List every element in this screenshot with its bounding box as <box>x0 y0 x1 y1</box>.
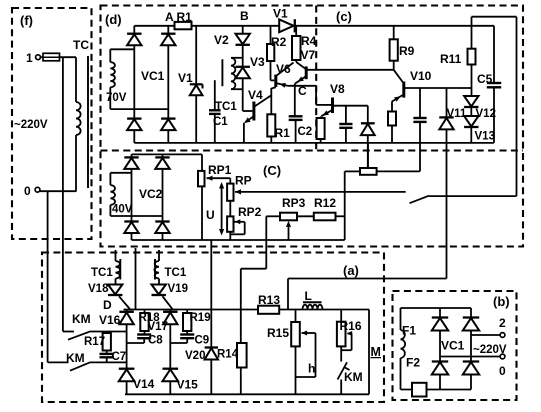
svg-text:R13: R13 <box>258 293 280 307</box>
svg-text:h: h <box>308 362 315 376</box>
svg-text:0: 0 <box>24 184 31 198</box>
svg-text:TC1: TC1 <box>91 267 113 279</box>
svg-text:U: U <box>206 208 215 222</box>
svg-text:V20: V20 <box>185 350 205 362</box>
svg-text:R15: R15 <box>267 326 289 340</box>
svg-text:V14: V14 <box>133 377 155 391</box>
svg-text:1: 1 <box>26 51 33 65</box>
svg-text:R11: R11 <box>440 52 462 66</box>
svg-text:V8: V8 <box>330 82 345 96</box>
svg-text:V7: V7 <box>301 48 316 62</box>
svg-text:R16: R16 <box>340 319 362 333</box>
svg-text:(d): (d) <box>105 12 122 27</box>
svg-text:KM: KM <box>66 351 85 365</box>
svg-text:(f): (f) <box>20 13 33 28</box>
svg-text:C7: C7 <box>112 351 127 363</box>
svg-text:RP1: RP1 <box>208 163 232 177</box>
svg-text:RP: RP <box>235 174 252 188</box>
svg-text:F2: F2 <box>406 356 420 370</box>
svg-text:C5: C5 <box>477 72 493 86</box>
svg-text:V10: V10 <box>410 69 432 83</box>
svg-text:A: A <box>165 10 174 24</box>
svg-text:70V: 70V <box>106 92 127 104</box>
svg-text:V19: V19 <box>168 283 188 295</box>
svg-text:L: L <box>305 289 312 303</box>
svg-text:V18: V18 <box>88 283 109 295</box>
svg-text:B: B <box>240 9 249 23</box>
svg-text:(b): (b) <box>493 294 510 309</box>
svg-text:R12: R12 <box>314 196 336 210</box>
svg-text:C8: C8 <box>148 335 163 347</box>
svg-text:R19: R19 <box>190 312 211 324</box>
svg-text:V2: V2 <box>214 33 229 47</box>
svg-text:RP3: RP3 <box>282 196 306 210</box>
svg-text:C9: C9 <box>195 335 210 347</box>
svg-text:40V: 40V <box>112 204 133 216</box>
svg-text:M: M <box>371 345 381 359</box>
svg-text:VC1: VC1 <box>141 69 165 83</box>
svg-text:~220V: ~220V <box>473 344 507 356</box>
svg-text:(a): (a) <box>343 263 359 278</box>
svg-text:D: D <box>103 298 112 312</box>
svg-text:C2: C2 <box>298 126 313 138</box>
svg-text:R14: R14 <box>217 349 239 361</box>
svg-text:V4: V4 <box>248 88 263 102</box>
svg-text:V13: V13 <box>475 131 495 143</box>
svg-text:V15: V15 <box>177 378 199 392</box>
svg-text:R9: R9 <box>399 44 415 58</box>
svg-text:V17: V17 <box>148 321 168 333</box>
svg-text:C: C <box>298 84 307 98</box>
svg-text:2: 2 <box>499 316 506 330</box>
svg-text:KM: KM <box>72 312 91 326</box>
svg-text:KM: KM <box>344 370 363 384</box>
svg-text:V6: V6 <box>276 62 291 76</box>
svg-text:R17: R17 <box>84 336 105 348</box>
svg-text:V16: V16 <box>99 313 121 327</box>
svg-text:(C): (C) <box>263 163 281 178</box>
svg-text:R4: R4 <box>301 34 317 48</box>
svg-text:V1: V1 <box>178 71 193 85</box>
svg-text:F1: F1 <box>402 324 416 338</box>
svg-text:RP2: RP2 <box>238 205 262 219</box>
svg-text:0: 0 <box>499 364 506 378</box>
svg-text:V3: V3 <box>250 55 265 69</box>
svg-text:C1: C1 <box>213 116 228 128</box>
svg-text:~220V: ~220V <box>14 119 48 131</box>
svg-text:R2: R2 <box>271 35 287 49</box>
svg-text:R1: R1 <box>177 10 193 24</box>
svg-text:V11: V11 <box>447 108 467 120</box>
svg-text:TC1: TC1 <box>165 267 187 279</box>
svg-text:TC: TC <box>73 38 89 52</box>
svg-text:(c): (c) <box>336 9 352 24</box>
svg-text:R1: R1 <box>275 126 291 140</box>
svg-text:VC1: VC1 <box>441 339 465 353</box>
svg-text:V12: V12 <box>476 108 496 120</box>
svg-text:V1: V1 <box>273 7 288 21</box>
svg-text:VC2: VC2 <box>139 187 163 201</box>
svg-text:TC1: TC1 <box>215 101 237 113</box>
